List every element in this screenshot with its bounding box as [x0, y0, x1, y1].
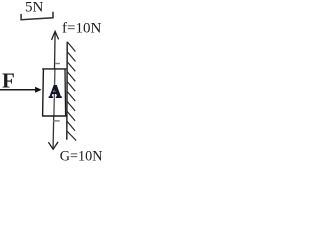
wall hatch 1: [67, 42, 75, 52]
svg-text:F: F: [2, 68, 15, 92]
wall hatch 9: [67, 121, 75, 131]
tick 5N mark upper: [55, 63, 60, 65]
svg-text:f=10N: f=10N: [62, 21, 101, 37]
wall hatch 4: [67, 72, 75, 82]
wall hatch 8: [67, 111, 75, 121]
block A rectangle: [42, 69, 45, 116]
wire f-force shaft upper: [54, 32, 57, 69]
tick stub near wall lower: [67, 121, 68, 123]
wire F-force line: [0, 89, 35, 91]
svg-text:G=10N: G=10N: [60, 149, 103, 161]
wall line: [66, 42, 68, 140]
svg-text:A: A: [49, 82, 62, 102]
arrowhead G down: [48, 142, 58, 149]
wall hatch 10: [67, 131, 76, 141]
wall hatch 7: [67, 101, 75, 111]
scale bar: [21, 12, 53, 20]
wire G-force shaft lower: [52, 116, 55, 148]
wall hatch 6: [67, 91, 75, 101]
wall hatch 2: [67, 52, 75, 62]
wall hatch 3: [67, 62, 75, 72]
tick 5N mark lower: [53, 120, 60, 122]
svg-text:5N: 5N: [25, 0, 44, 15]
wall hatch 5: [67, 82, 75, 92]
arrowhead F right: [35, 87, 42, 93]
wire force line through block: [54, 69, 55, 116]
arrowhead f up: [52, 31, 59, 40]
